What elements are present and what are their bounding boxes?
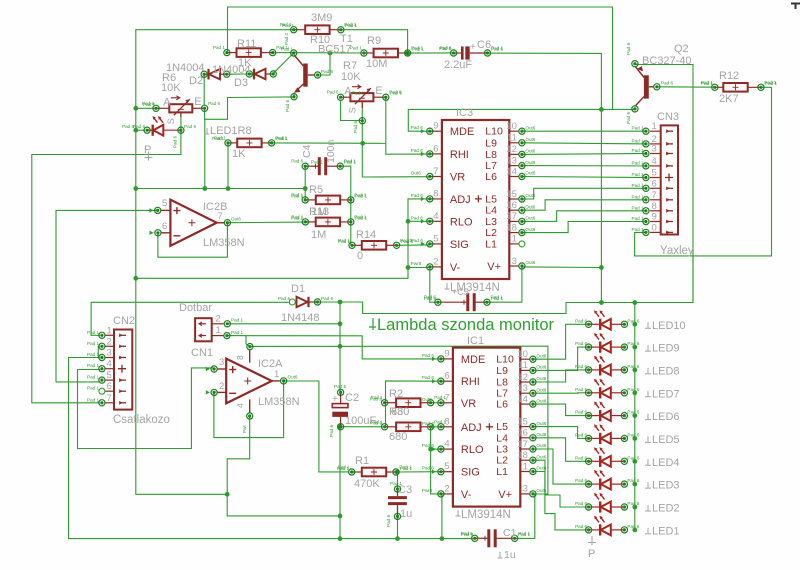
CN1 pin 2 bbox=[212, 323, 224, 325]
svg-text:Pad 1: Pad 1 bbox=[518, 532, 530, 537]
label LED5 bbox=[645, 436, 651, 442]
svg-text:BC327-40: BC327-40 bbox=[642, 55, 692, 67]
wire CN1 pin1 to IC1 MDE and V+ pin8 jog bbox=[227, 336, 441, 359]
IC3 pin 10 L10 bbox=[509, 130, 519, 132]
svg-text:7: 7 bbox=[107, 393, 112, 404]
svg-text:Pad 1: Pad 1 bbox=[311, 160, 323, 165]
svg-text:LED1: LED1 bbox=[652, 525, 680, 537]
CN3 pin 5 bbox=[650, 177, 661, 179]
op-amp IC2B bbox=[170, 200, 216, 246]
svg-text:1: 1 bbox=[216, 325, 221, 336]
svg-text:18: 18 bbox=[517, 450, 528, 461]
wire RHI jog rail through R2/R3 left bbox=[386, 381, 441, 427]
wire rail136 to LED P left pad bbox=[136, 129, 145, 131]
resistor R12 bbox=[715, 83, 761, 92]
svg-text:L6: L6 bbox=[485, 171, 497, 183]
svg-text:Csatlakozo: Csatlakozo bbox=[113, 414, 170, 426]
CN2 pin 5 bbox=[105, 379, 114, 381]
IC3 pin 5 SIG bbox=[430, 243, 442, 245]
svg-text:2: 2 bbox=[107, 336, 112, 347]
svg-text:12: 12 bbox=[517, 372, 528, 383]
svg-text:Pwr: Pwr bbox=[242, 425, 247, 433]
svg-text:Pad 6: Pad 6 bbox=[422, 421, 434, 426]
svg-text:Pad 6: Pad 6 bbox=[627, 410, 639, 415]
svg-text:RLO: RLO bbox=[450, 216, 473, 228]
IC1 pin 12 L8 bbox=[520, 381, 530, 383]
svg-text:P: P bbox=[588, 548, 595, 560]
svg-text:RLO: RLO bbox=[461, 444, 484, 456]
resistor R11 bbox=[227, 48, 273, 57]
IC3 pin 7 VR bbox=[430, 176, 442, 178]
svg-text:Pad 6: Pad 6 bbox=[173, 136, 178, 148]
svg-text:15: 15 bbox=[506, 189, 517, 200]
CN3 pin 3 bbox=[650, 153, 661, 155]
svg-text:Pad 1: Pad 1 bbox=[491, 296, 503, 301]
svg-text:Pad 6: Pad 6 bbox=[422, 375, 434, 380]
svg-text:+: + bbox=[332, 394, 338, 405]
wire trimmer R6 E pad down-feed from diode D2 anode bbox=[203, 74, 205, 105]
svg-text:Out6: Out6 bbox=[536, 454, 546, 459]
svg-text:Pad 1: Pad 1 bbox=[87, 363, 99, 368]
trimmer R7 bbox=[341, 85, 386, 108]
diode D1 1N4148 bbox=[292, 297, 317, 307]
svg-text:IC3: IC3 bbox=[456, 107, 473, 119]
svg-text:Out6: Out6 bbox=[525, 227, 535, 232]
wire IC2B output to R13 left bbox=[227, 221, 305, 224]
svg-text:4: 4 bbox=[433, 211, 438, 222]
svg-text:Pad 6: Pad 6 bbox=[661, 81, 673, 86]
wire C2 bottom down to ground rail bbox=[339, 427, 341, 539]
label LED6 bbox=[645, 414, 651, 420]
transistor Q1 BC517 NPN bbox=[294, 55, 314, 93]
svg-text:Out6: Out6 bbox=[525, 204, 535, 209]
label LED10 bbox=[645, 322, 651, 328]
IC3 pin 16 L4 bbox=[509, 209, 519, 211]
svg-text:470K: 470K bbox=[354, 478, 380, 490]
svg-text:L8: L8 bbox=[496, 377, 508, 389]
svg-text:9: 9 bbox=[652, 212, 657, 223]
CN2 pin 2 bbox=[105, 345, 114, 347]
svg-text:Pad 1: Pad 1 bbox=[212, 136, 224, 141]
svg-text:LED7: LED7 bbox=[652, 388, 680, 400]
svg-text:Pad 6: Pad 6 bbox=[626, 112, 631, 124]
IC3 pin 15 L5 bbox=[509, 198, 519, 200]
svg-text:BC517: BC517 bbox=[318, 44, 352, 56]
svg-text:LED6: LED6 bbox=[652, 411, 680, 423]
svg-text:Pad 1: Pad 1 bbox=[350, 46, 362, 51]
svg-text:0: 0 bbox=[357, 250, 363, 262]
svg-text:6: 6 bbox=[162, 221, 167, 232]
svg-text:3: 3 bbox=[512, 256, 517, 267]
svg-text:10: 10 bbox=[506, 121, 517, 132]
svg-text:Pad 1: Pad 1 bbox=[344, 160, 356, 165]
svg-text:2K7: 2K7 bbox=[719, 93, 739, 105]
svg-text:Pad 1: Pad 1 bbox=[632, 148, 644, 153]
svg-text:L3: L3 bbox=[485, 216, 497, 228]
svg-text:Pad 6: Pad 6 bbox=[439, 46, 451, 51]
svg-text:CN3: CN3 bbox=[657, 111, 679, 123]
svg-text:R12: R12 bbox=[719, 70, 739, 82]
IC1 pin 4 RLO bbox=[441, 448, 453, 450]
svg-text:2.2uF: 2.2uF bbox=[444, 59, 472, 71]
svg-text:17: 17 bbox=[517, 439, 528, 450]
svg-text:Out6: Out6 bbox=[536, 421, 546, 426]
svg-text:680: 680 bbox=[391, 406, 409, 418]
IC1 pin 17 L3 bbox=[520, 448, 530, 450]
svg-text:D2: D2 bbox=[189, 75, 203, 87]
wire x=204.8 drop from E-corner to 188 rail bbox=[204, 119, 206, 188]
svg-text:Pad 1: Pad 1 bbox=[632, 172, 644, 177]
svg-text:Pad 6: Pad 6 bbox=[627, 318, 639, 323]
svg-text:LED5: LED5 bbox=[652, 434, 680, 446]
svg-text:4: 4 bbox=[652, 156, 657, 167]
svg-text:18: 18 bbox=[506, 222, 517, 233]
svg-text:Pad 6: Pad 6 bbox=[184, 124, 196, 129]
svg-text:IC1: IC1 bbox=[467, 335, 484, 347]
svg-text:Pad 6: Pad 6 bbox=[575, 455, 587, 460]
svg-text:Pad 1: Pad 1 bbox=[632, 183, 644, 188]
svg-text:Out6: Out6 bbox=[536, 466, 546, 471]
LED LED5 bbox=[589, 433, 625, 444]
svg-text:ADJ: ADJ bbox=[450, 194, 471, 206]
IC3 pin 9 MDE bbox=[430, 130, 442, 132]
svg-text:IC2B: IC2B bbox=[203, 201, 227, 213]
IC3 pin 14 L6 bbox=[509, 176, 519, 178]
svg-text:LED9: LED9 bbox=[652, 343, 680, 355]
IC3 pin 11 L9 bbox=[509, 142, 519, 144]
wire C4 right jog down through R5/R13 right to R14 left bbox=[340, 166, 351, 245]
wire CN2 pin1 to D1 anode bbox=[91, 302, 289, 335]
svg-text:Pwr6: Pwr6 bbox=[411, 261, 422, 266]
svg-text:L6: L6 bbox=[496, 399, 508, 411]
svg-text:Pad 1: Pad 1 bbox=[87, 341, 99, 346]
svg-text:9: 9 bbox=[433, 121, 438, 132]
resistor R13 bbox=[305, 218, 350, 227]
svg-text:Pad 1: Pad 1 bbox=[355, 216, 367, 221]
svg-text:Pad 1: Pad 1 bbox=[701, 81, 713, 86]
wire CN1 pin2 to D1 rail bbox=[227, 323, 340, 325]
svg-text:7: 7 bbox=[444, 392, 449, 403]
resistor R2 bbox=[385, 398, 431, 407]
svg-text:Pad 1: Pad 1 bbox=[213, 45, 225, 50]
CN3 pin 1 bbox=[650, 130, 661, 132]
svg-text:3: 3 bbox=[523, 484, 528, 495]
svg-text:Out6: Out6 bbox=[536, 387, 546, 392]
svg-text:1M: 1M bbox=[311, 229, 326, 241]
wire C3 vertical taps bbox=[397, 472, 399, 489]
svg-text:Out6: Out6 bbox=[536, 365, 546, 370]
svg-text:R9: R9 bbox=[367, 35, 381, 47]
svg-text:1u: 1u bbox=[504, 549, 516, 561]
svg-text:Dotbar: Dotbar bbox=[179, 302, 212, 314]
svg-text:1: 1 bbox=[652, 121, 657, 132]
svg-text:Out6: Out6 bbox=[536, 432, 546, 437]
svg-text:Pad 1: Pad 1 bbox=[291, 194, 303, 199]
wire C2 bottom to R3 left bbox=[340, 426, 385, 428]
wire left main rail x=136 bbox=[136, 30, 294, 495]
svg-text:Out6: Out6 bbox=[536, 488, 546, 493]
CN3 pin 10 bbox=[650, 231, 661, 233]
wire IC2B feedback output to - input bbox=[158, 223, 228, 258]
svg-text:CN2: CN2 bbox=[113, 315, 135, 327]
svg-text:LM3914N: LM3914N bbox=[461, 509, 511, 521]
CN1 pin 1 bbox=[212, 335, 224, 337]
wire R7 wiper rail down to IC3 VR bbox=[362, 103, 430, 177]
trimmer R6 bbox=[156, 96, 205, 117]
CN3 pin 7 bbox=[650, 199, 661, 201]
CN3 pin 6 bbox=[650, 187, 661, 189]
svg-text:LED8: LED8 bbox=[652, 365, 680, 377]
CN2 pin 3 bbox=[105, 357, 114, 359]
svg-text:Pad 6: Pad 6 bbox=[422, 443, 434, 448]
wire R7 left tie to wiper pad bbox=[341, 100, 363, 121]
wire IC3 ADJ/RLO/V- ground rail x=408 bbox=[136, 199, 430, 278]
wire IC3 MDE up over to V+ rail and Q2 emitter bbox=[408, 109, 612, 131]
capacitor C3 1u vertical bbox=[388, 489, 407, 516]
svg-text:Pad 6: Pad 6 bbox=[422, 353, 434, 358]
svg-text:Pad 1: Pad 1 bbox=[400, 466, 412, 471]
svg-text:Pad 6: Pad 6 bbox=[334, 384, 346, 389]
svg-text:5: 5 bbox=[652, 168, 657, 179]
svg-text:3: 3 bbox=[107, 348, 112, 359]
capacitor C5 bbox=[438, 293, 487, 311]
svg-text:11: 11 bbox=[518, 360, 528, 371]
connector CN2 Csatlakozo bbox=[114, 330, 132, 410]
svg-text:LED10: LED10 bbox=[652, 320, 686, 332]
IC3 pin 12 L8 bbox=[509, 153, 519, 155]
LED LED6 bbox=[589, 410, 625, 421]
svg-text:L3: L3 bbox=[496, 444, 508, 456]
svg-text:2: 2 bbox=[433, 256, 438, 267]
svg-text:E: E bbox=[194, 96, 201, 108]
supply symbol P bottom bbox=[588, 536, 596, 545]
svg-text:L2: L2 bbox=[485, 227, 497, 239]
IC3 pin 8 ADJ bbox=[430, 198, 442, 200]
wire IC1 V- down to ground rail bbox=[441, 495, 443, 539]
CN2 pin 7 bbox=[105, 402, 114, 404]
svg-text:17: 17 bbox=[506, 211, 517, 222]
svg-text:1N4004: 1N4004 bbox=[166, 62, 205, 74]
svg-text:5: 5 bbox=[444, 461, 449, 472]
CN2 pin 4 bbox=[105, 368, 114, 370]
label LED3 bbox=[645, 482, 651, 488]
wire C4 left riser to R5 left bbox=[304, 166, 306, 200]
svg-text:L8: L8 bbox=[485, 149, 497, 161]
CN3 pin 2 bbox=[650, 143, 661, 145]
wire IC3 L5-L2 jogs to CN3 pins 6-9 bbox=[522, 188, 646, 199]
svg-text:Pad 6: Pad 6 bbox=[627, 501, 639, 506]
svg-text:L1: L1 bbox=[485, 238, 497, 250]
svg-text:Out6: Out6 bbox=[422, 397, 432, 402]
svg-text:5: 5 bbox=[107, 370, 112, 381]
svg-text:Pad 6: Pad 6 bbox=[208, 101, 220, 106]
IC3 pin 3 V+ bbox=[509, 265, 519, 267]
svg-text:0: 0 bbox=[652, 222, 657, 233]
svg-text:Pad 1: Pad 1 bbox=[632, 194, 644, 199]
IC1 pin 5 SIG bbox=[441, 471, 453, 473]
svg-text:Pad 6: Pad 6 bbox=[627, 455, 639, 460]
svg-text:8: 8 bbox=[652, 201, 657, 212]
svg-text:1M: 1M bbox=[312, 206, 327, 218]
svg-text:Pad 1: Pad 1 bbox=[632, 160, 644, 165]
svg-text:1: 1 bbox=[107, 325, 112, 336]
wire IC1 outputs to LEDs bbox=[533, 324, 589, 359]
svg-text:Pad 1: Pad 1 bbox=[355, 194, 367, 199]
svg-text:MDE: MDE bbox=[450, 126, 474, 138]
LED LED3 bbox=[589, 479, 625, 490]
svg-text:Pad 6: Pad 6 bbox=[370, 421, 382, 426]
svg-text:LM3914N: LM3914N bbox=[450, 282, 500, 294]
svg-text:Out6: Out6 bbox=[525, 125, 535, 130]
svg-text:Pad 1: Pad 1 bbox=[87, 330, 99, 335]
svg-text:Pad 6: Pad 6 bbox=[352, 91, 364, 96]
wire IC2A output to R1 left bbox=[284, 381, 349, 472]
IC1 pin 16 L4 bbox=[520, 437, 530, 439]
svg-text:Pad 6: Pad 6 bbox=[575, 410, 587, 415]
svg-text:Pad 1: Pad 1 bbox=[632, 227, 644, 232]
svg-text:Pad 6: Pad 6 bbox=[390, 91, 402, 96]
label LED4 bbox=[645, 459, 651, 465]
IC1 pin 2 V- bbox=[441, 493, 453, 495]
svg-text:Pad 6: Pad 6 bbox=[627, 524, 639, 529]
svg-text:L10: L10 bbox=[496, 354, 514, 366]
svg-text:Pad 6: Pad 6 bbox=[575, 387, 587, 392]
svg-text:Out6: Out6 bbox=[536, 398, 546, 403]
IC1 pin 18 L2 bbox=[520, 459, 530, 461]
LED LED1 bbox=[589, 524, 625, 535]
svg-text:3M9: 3M9 bbox=[311, 12, 332, 24]
label LED8 bbox=[645, 368, 651, 374]
svg-text:Pad 6: Pad 6 bbox=[122, 124, 134, 129]
svg-text:Pad 1: Pad 1 bbox=[632, 138, 644, 143]
svg-text:Pad 6: Pad 6 bbox=[575, 501, 587, 506]
svg-text:E: E bbox=[375, 85, 382, 97]
svg-text:V-: V- bbox=[450, 262, 461, 274]
capacitor C2 100uF polarized vertical bbox=[332, 392, 348, 426]
svg-text:R11: R11 bbox=[237, 38, 256, 50]
IC1 pin 3 V+ bbox=[520, 493, 530, 495]
svg-text:Out6: Out6 bbox=[536, 443, 546, 448]
svg-text:L5: L5 bbox=[496, 421, 508, 433]
IC1 pin 14 L6 bbox=[520, 403, 530, 405]
svg-text:L2: L2 bbox=[496, 455, 508, 467]
wire CN3 pin10 to R12 to Q2 base net bbox=[635, 87, 772, 256]
capacitor C6 bbox=[454, 46, 488, 59]
svg-text:1: 1 bbox=[274, 369, 279, 380]
wire R8 left down to 188 rail bbox=[227, 143, 229, 189]
label LED1 bbox=[645, 528, 651, 534]
svg-text:6: 6 bbox=[444, 371, 449, 382]
wire Q2 base to R12 left bbox=[657, 86, 715, 88]
svg-text:R1: R1 bbox=[355, 455, 369, 467]
wire CN2 pin2-pin3 link bbox=[97, 346, 99, 357]
svg-text:Pad 6: Pad 6 bbox=[329, 425, 334, 437]
label LED9 bbox=[645, 345, 651, 351]
wire R2 right to IC1 VR bbox=[431, 402, 441, 404]
resistor R5 bbox=[305, 196, 351, 205]
svg-text:SIG: SIG bbox=[450, 239, 469, 251]
connector CN3 Yaxley bbox=[661, 125, 678, 234]
svg-text:Pad 6: Pad 6 bbox=[291, 159, 303, 164]
wire R8 right to RHI/R7 node bbox=[272, 142, 386, 144]
resistor R3 bbox=[385, 423, 431, 432]
svg-text:VR: VR bbox=[450, 172, 465, 184]
svg-text:R2: R2 bbox=[389, 388, 403, 400]
wire IC2A output feedback to - input bbox=[214, 381, 284, 438]
wire V+ rail346 CN1/IC2A pin8 to IC1 V+ bbox=[250, 346, 548, 494]
svg-text:13: 13 bbox=[517, 383, 528, 394]
IC1 pin 11 L9 bbox=[520, 369, 530, 371]
LED LED8 bbox=[589, 364, 625, 375]
svg-text:Pad 6: Pad 6 bbox=[143, 102, 155, 107]
wire C5 right up to IC3 V+ and on to V+ rail bbox=[487, 267, 522, 302]
IC1 pin 13 L7 bbox=[520, 392, 530, 394]
svg-text:P: P bbox=[144, 144, 151, 156]
resistor R8 bbox=[228, 139, 272, 148]
svg-text:3: 3 bbox=[652, 144, 657, 155]
svg-text:C3: C3 bbox=[398, 484, 412, 496]
svg-text:Pad 1: Pad 1 bbox=[282, 23, 294, 28]
svg-text:Pad 6: Pad 6 bbox=[411, 148, 423, 153]
svg-text:100n: 100n bbox=[325, 139, 337, 163]
svg-text:V-: V- bbox=[461, 489, 472, 501]
svg-text:LED4: LED4 bbox=[652, 457, 680, 469]
svg-text:Out6: Out6 bbox=[525, 260, 535, 265]
LED P photo indicator bbox=[147, 125, 181, 136]
svg-text:Pad 6: Pad 6 bbox=[321, 296, 333, 301]
LED LED10 bbox=[589, 319, 625, 330]
IC3 pin 1 L1 bbox=[509, 243, 519, 245]
IC1 pin 9 MDE bbox=[441, 358, 453, 360]
wire R7 right down to IC3 RHI bbox=[386, 97, 430, 154]
svg-text:+: + bbox=[470, 42, 476, 53]
svg-text:Pad 6: Pad 6 bbox=[285, 100, 290, 112]
diode D3 bbox=[249, 69, 273, 80]
svg-text:Out6: Out6 bbox=[536, 353, 546, 358]
svg-text:Out6: Out6 bbox=[525, 149, 535, 154]
resistor R14 bbox=[352, 241, 397, 250]
svg-text:Out6: Out6 bbox=[525, 137, 535, 142]
svg-text:Pad 1: Pad 1 bbox=[765, 81, 777, 86]
svg-text:Pad 6: Pad 6 bbox=[575, 318, 587, 323]
svg-text:L1: L1 bbox=[496, 466, 508, 478]
CN3 pin 4 bbox=[650, 165, 661, 167]
svg-text:Pad 1: Pad 1 bbox=[231, 318, 243, 323]
svg-text:4: 4 bbox=[444, 439, 449, 450]
wire D3 cathode diagonal up to Q1 base pad bbox=[273, 53, 293, 73]
svg-text:4: 4 bbox=[235, 403, 245, 408]
IC IC3 LM3914N body bbox=[442, 120, 509, 279]
svg-text:Pad 6: Pad 6 bbox=[327, 90, 339, 95]
LED LED9 bbox=[589, 342, 625, 353]
svg-text:C6: C6 bbox=[477, 39, 491, 51]
svg-text:L9: L9 bbox=[496, 365, 508, 377]
svg-text:A: A bbox=[163, 97, 171, 109]
svg-text:L4: L4 bbox=[485, 205, 497, 217]
wire trimmer R6 wiper down to P supply wire bbox=[32, 113, 181, 403]
svg-text:C2: C2 bbox=[345, 392, 359, 404]
IC1 pin 8 ADJ bbox=[441, 426, 453, 428]
svg-text:16: 16 bbox=[517, 428, 528, 439]
wire D2 cathode to D3 anode bbox=[227, 73, 250, 75]
svg-text:Pad 6: Pad 6 bbox=[401, 239, 413, 244]
svg-text:8: 8 bbox=[444, 416, 449, 427]
svg-text:Pad 6: Pad 6 bbox=[575, 341, 587, 346]
IC1 pin 10 L10 bbox=[520, 358, 530, 360]
svg-text:11: 11 bbox=[507, 133, 517, 144]
svg-text:R5: R5 bbox=[309, 184, 323, 196]
svg-text:Pad 6: Pad 6 bbox=[370, 397, 382, 402]
